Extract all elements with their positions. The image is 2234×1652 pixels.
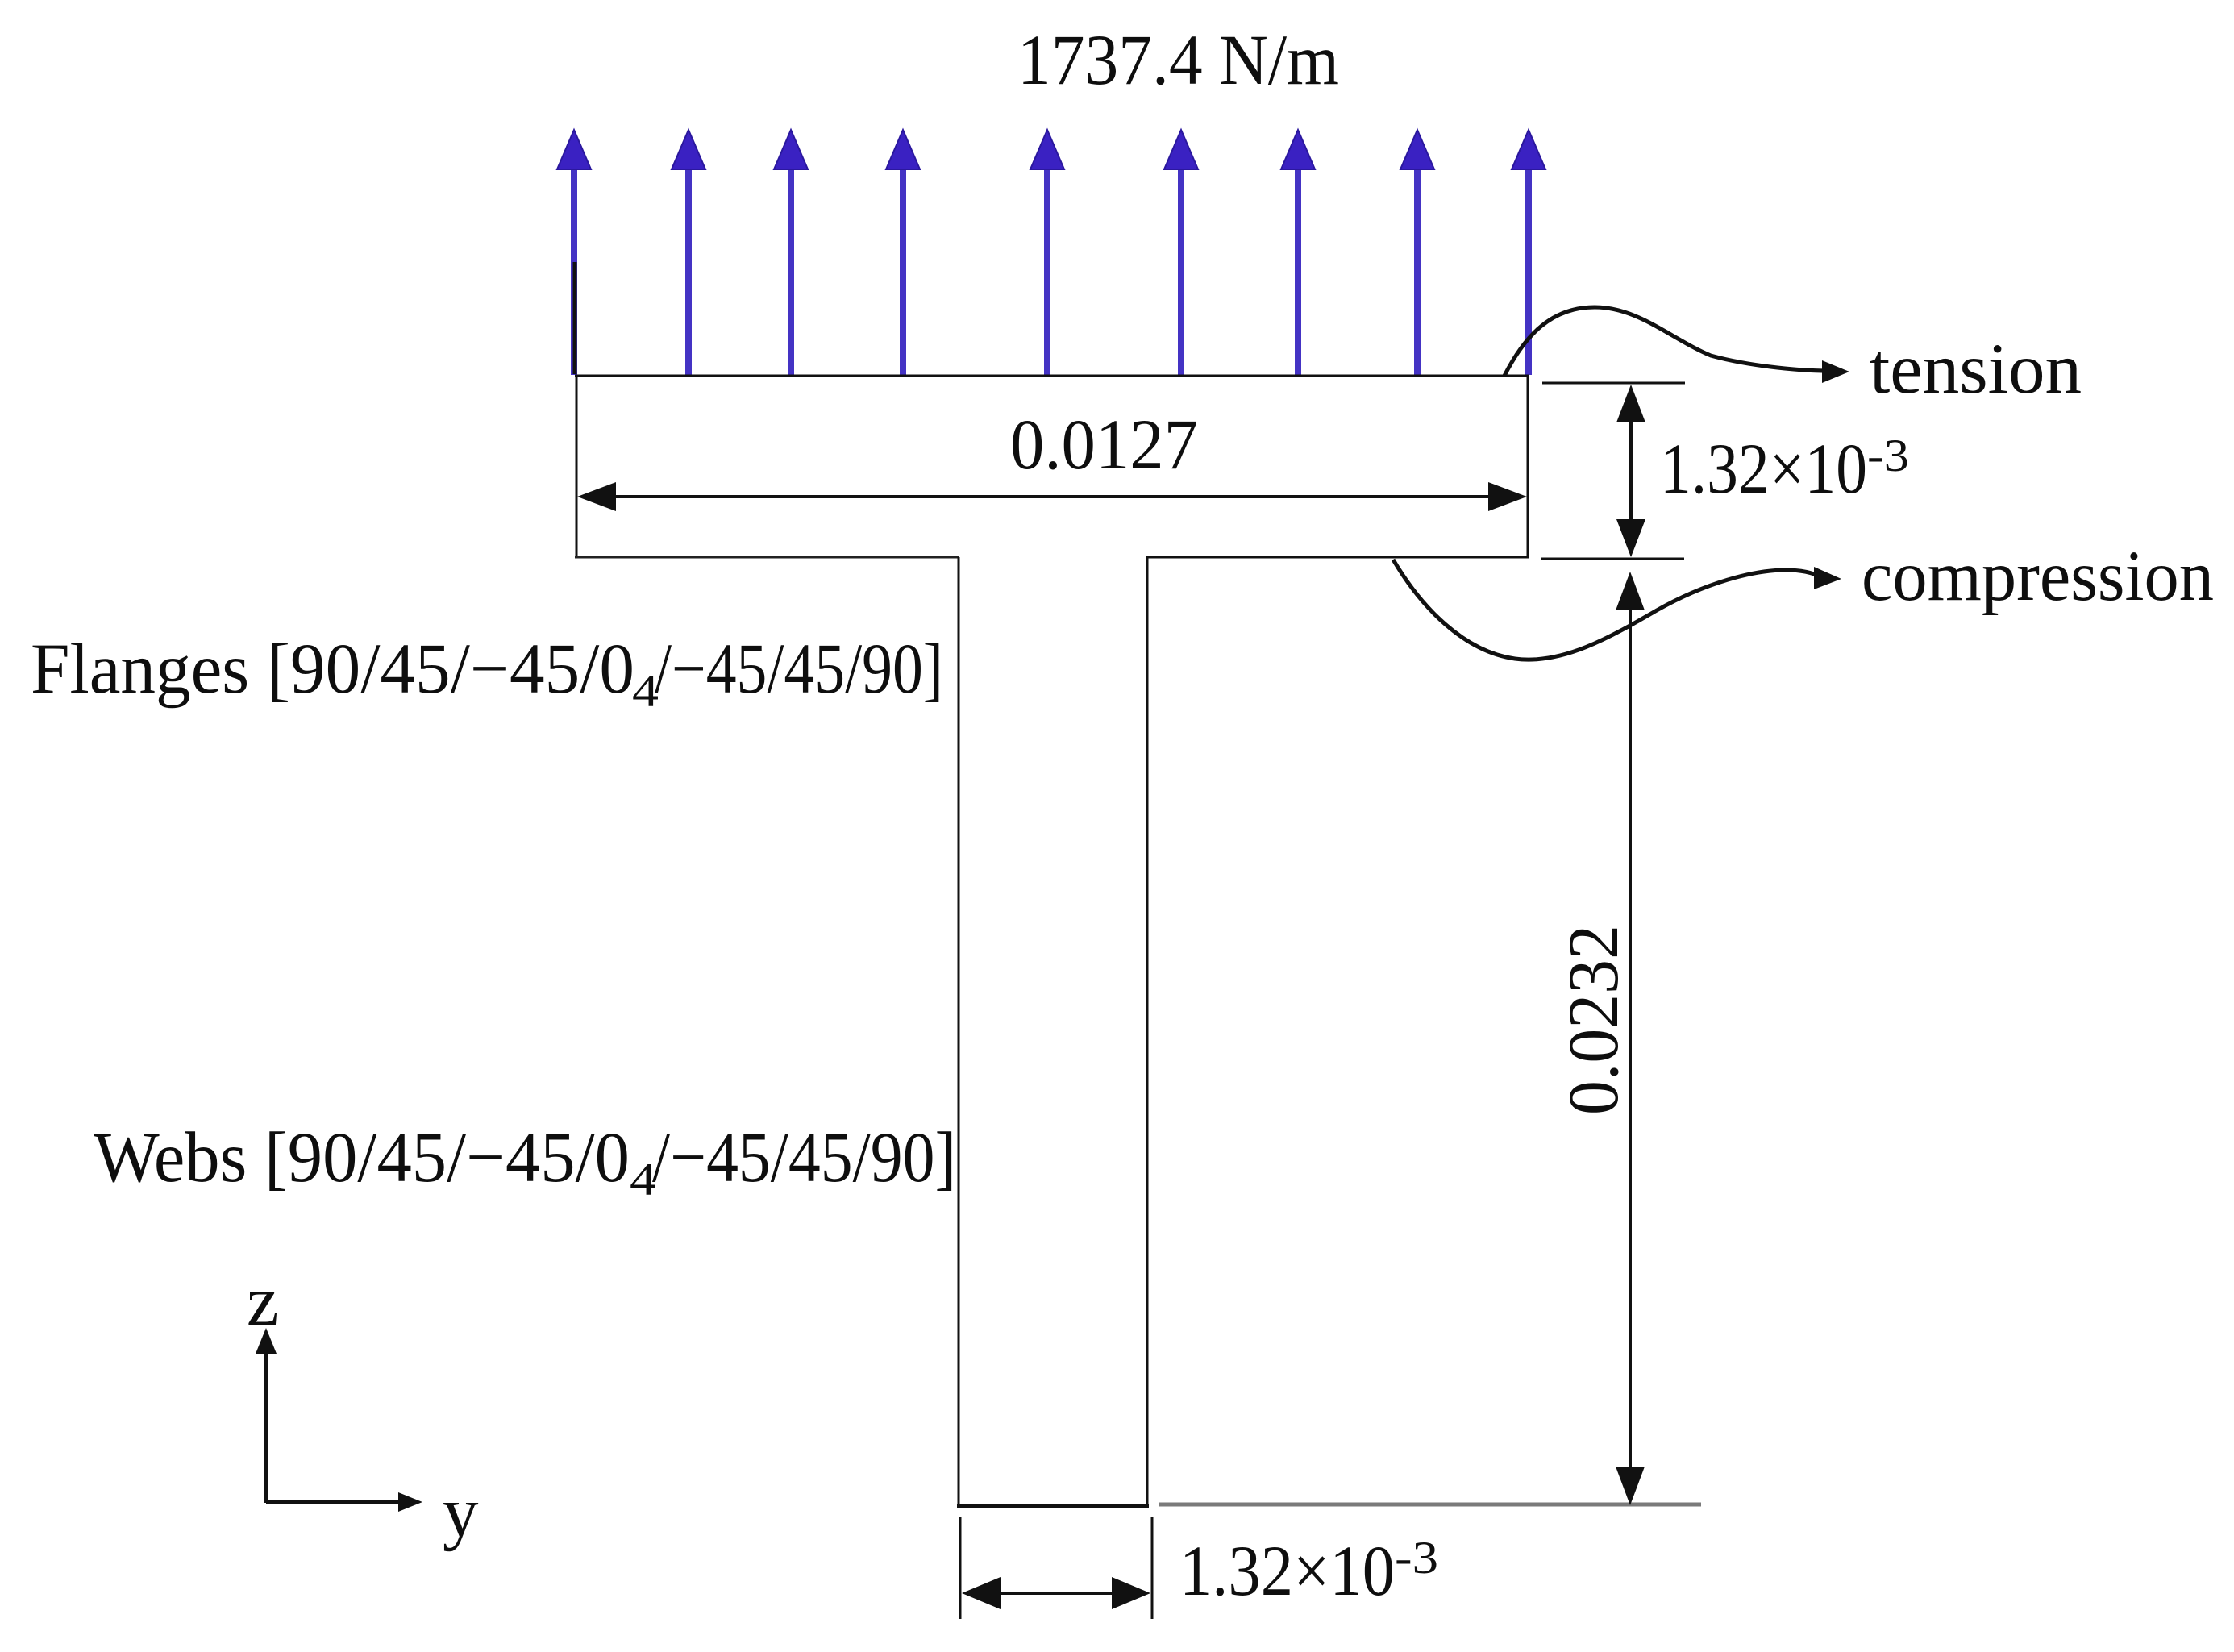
svg-text:1.32×10: 1.32×10	[1660, 430, 1867, 509]
svg-text:Webs [90/45/−45/0: Webs [90/45/−45/0	[94, 1118, 630, 1197]
svg-text:0.0232: 0.0232	[1554, 925, 1633, 1115]
svg-text:1737.4 N/m: 1737.4 N/m	[1017, 21, 1339, 100]
svg-text:1.32×10: 1.32×10	[1179, 1532, 1395, 1611]
svg-text:tension: tension	[1870, 330, 2082, 409]
svg-text:z: z	[247, 1262, 279, 1341]
svg-text:0.0127: 0.0127	[1010, 406, 1198, 485]
svg-text:y: y	[443, 1473, 479, 1552]
svg-text:-3: -3	[1867, 431, 1909, 481]
svg-text:compression: compression	[1862, 537, 2214, 616]
svg-text:Flanges [90/45/−45/0: Flanges [90/45/−45/0	[31, 630, 634, 709]
svg-text:-3: -3	[1395, 1533, 1438, 1583]
svg-text:/−45/45/90]: /−45/45/90]	[655, 630, 943, 709]
svg-text:/−45/45/90]: /−45/45/90]	[652, 1118, 956, 1197]
